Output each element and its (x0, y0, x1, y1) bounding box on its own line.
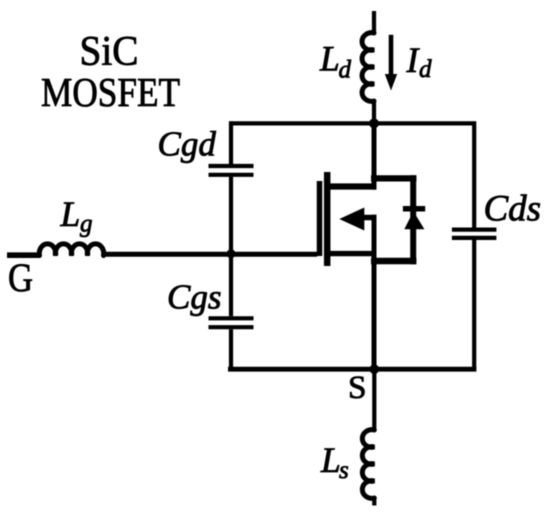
svg-text:G: G (8, 255, 33, 300)
svg-text:d: d (419, 56, 432, 83)
svg-text:L: L (320, 440, 341, 480)
svg-text:L: L (319, 38, 340, 78)
svg-text:Cds: Cds (484, 189, 542, 230)
svg-text:MOSFET: MOSFET (41, 69, 180, 115)
svg-text:Cgd: Cgd (158, 124, 217, 163)
svg-text:Cgs: Cgs (167, 278, 221, 317)
svg-text:g: g (80, 211, 93, 238)
svg-text:S: S (348, 370, 367, 406)
svg-text:d: d (339, 57, 352, 84)
svg-text:s: s (339, 457, 349, 484)
svg-text:L: L (60, 194, 81, 234)
